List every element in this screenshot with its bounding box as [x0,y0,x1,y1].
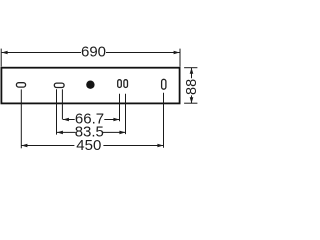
dimension 690: right arrowhead [174,51,180,55]
dimension 88: line top segment [191,68,193,79]
dimension 690: left arrowhead [2,51,8,55]
mounting slot S1 (left) [16,83,25,87]
dimension 690: line right segment [106,52,180,54]
dimension 88: line bottom segment [191,95,193,103]
dimension 66.7: line right segment [104,119,119,121]
dimension 450: line left segment [21,145,74,147]
dimension 88: up arrowhead [190,68,194,74]
dimension 83.5: left extension line (from slot S2 left end) [56,89,58,134]
dimension 690: right extension line [179,49,181,67]
svg-text:450: 450 [76,137,101,154]
dimension 88: top extension line [184,67,197,69]
dimension 66.7: left extension line (from slot S2 right end) [61,89,63,119]
dimension 690: left extension line [0,49,2,67]
dimension 66.7: left arrowhead [63,118,69,122]
fixture body outline [1,68,179,104]
dimension 88: down arrowhead [190,97,194,103]
dimension 450: right extension line (from slot S5) [163,93,165,148]
dimension 83.5: line left segment [57,131,76,133]
center knockout hole (filled) [86,81,94,89]
dimension 450: line right segment [103,145,163,147]
dimension 66.7: right extension line (from left oval) [119,94,121,122]
dimension 83.5: right extension line (from right oval) [125,94,127,134]
dimension 450: right arrowhead [157,144,163,148]
mounting slot S5 (right, vertical) [162,79,166,89]
dimension 83.5: right arrowhead [119,131,125,135]
dimension 450: left extension line (from slot S1) [20,89,22,148]
dimension 66.7: right arrowhead [113,118,119,122]
mounting slot S2 [54,83,64,87]
svg-text:88: 88 [184,79,200,95]
vertical slot pair: left oval [118,80,122,88]
dimension 450: left arrowhead [21,144,27,148]
vertical slot pair: right oval [124,80,128,88]
dimension 66.7: line left segment [63,119,75,121]
dimension 690: line left segment [2,52,81,54]
svg-text:690: 690 [81,44,106,61]
dimension 83.5: line right segment [103,131,125,133]
dimension 88: bottom extension line [184,102,197,104]
dimension 83.5: left arrowhead [57,131,63,135]
